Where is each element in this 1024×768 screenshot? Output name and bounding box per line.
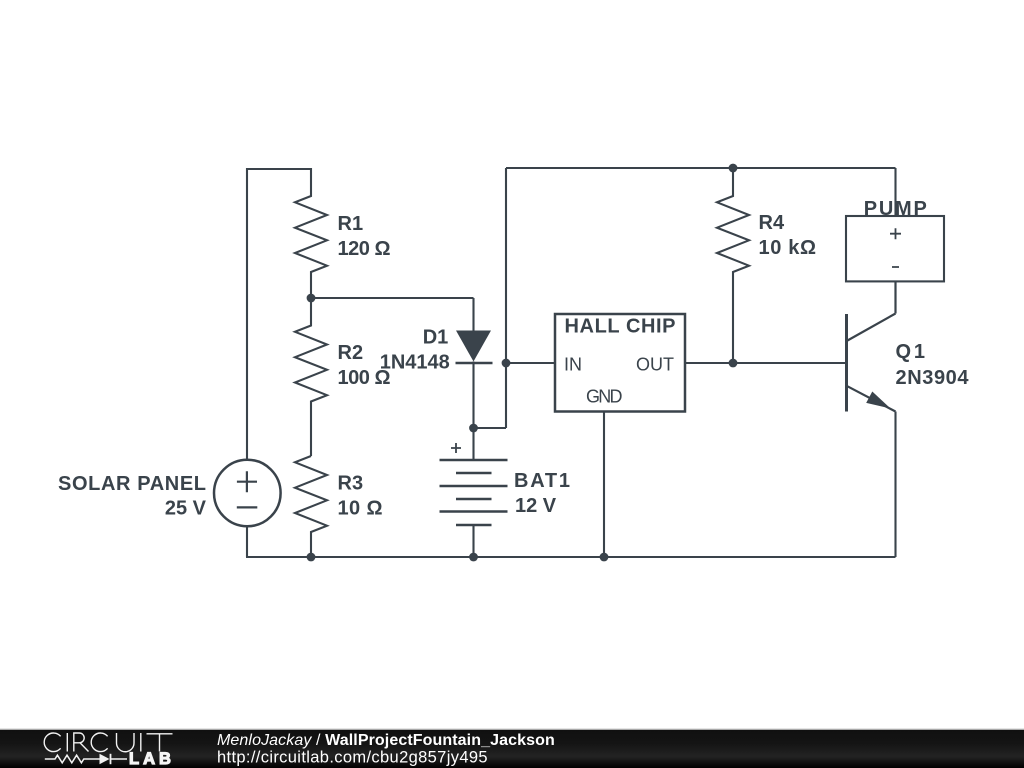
- svg-text:GND: GND: [586, 386, 623, 406]
- svg-text:BAT1: BAT1: [514, 470, 570, 492]
- svg-text:2N3904: 2N3904: [896, 367, 970, 389]
- svg-text:R2: R2: [338, 342, 364, 364]
- svg-text:PUMP: PUMP: [864, 198, 927, 220]
- svg-text:SOLAR PANEL: SOLAR PANEL: [58, 473, 206, 495]
- svg-text:1N4148: 1N4148: [380, 352, 450, 374]
- svg-text:R4: R4: [759, 212, 785, 234]
- svg-text:R3: R3: [338, 473, 364, 495]
- svg-text:OUT: OUT: [636, 355, 674, 375]
- svg-text:HALL CHIP: HALL CHIP: [565, 315, 676, 337]
- svg-text:120 Ω: 120 Ω: [338, 238, 391, 260]
- svg-text:R1: R1: [338, 213, 364, 235]
- svg-text:Q1: Q1: [896, 341, 926, 363]
- svg-text:25 V: 25 V: [165, 498, 207, 520]
- svg-text:IN: IN: [564, 355, 582, 375]
- svg-text:12 V: 12 V: [515, 495, 557, 517]
- svg-text:http://circuitlab.com/cbu2g857: http://circuitlab.com/cbu2g857jy495: [217, 749, 488, 767]
- svg-text:MenloJackay / WallProjectFount: MenloJackay / WallProjectFountain_Jackso…: [217, 732, 555, 749]
- svg-text:D1: D1: [423, 327, 449, 349]
- svg-text:10 kΩ: 10 kΩ: [759, 237, 817, 259]
- svg-text:10 Ω: 10 Ω: [338, 498, 383, 520]
- svg-text:LAB: LAB: [129, 750, 175, 768]
